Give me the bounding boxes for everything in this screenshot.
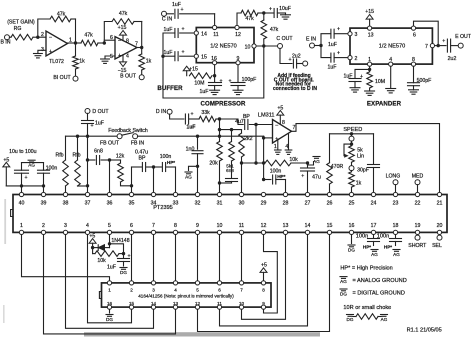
pin 9: [236, 56, 240, 65]
svg-text:4: 4: [86, 223, 89, 229]
svg-text:+: +: [442, 39, 445, 45]
junction pin39 rail: [42, 184, 45, 192]
capacitor 1n0: [186, 135, 203, 193]
pin 16: [211, 56, 217, 65]
terminal after 2u2: [303, 61, 308, 66]
svg-text:30pF: 30pF: [357, 168, 369, 174]
wires pins 6-11 to RAM 2-7: [132, 235, 242, 281]
pin 15: [194, 54, 207, 60]
capacitor 100n decoupling: [38, 163, 58, 186]
ground at 100pF: [233, 90, 243, 94]
svg-text:LONG: LONG: [386, 173, 401, 179]
svg-text:+: +: [49, 49, 52, 55]
svg-text:4: 4: [174, 288, 177, 293]
pin 11: [213, 25, 219, 38]
svg-text:11: 11: [213, 32, 218, 38]
junction pin40 rail: [20, 184, 23, 192]
terminal FB IN: [131, 134, 145, 147]
svg-text:9: 9: [262, 301, 265, 306]
resistor 470R: [327, 134, 344, 192]
svg-text:AG: AG: [28, 163, 35, 168]
svg-text:1uF: 1uF: [164, 50, 173, 56]
terminal SHORT: [408, 235, 427, 249]
capacitor 2u2 C OUT: [288, 54, 302, 69]
svg-text:20: 20: [437, 223, 443, 229]
wire U1B pin6: [104, 39, 115, 41]
capacitor 4u7 BP: [235, 114, 272, 130]
svg-text:LM311: LM311: [258, 112, 275, 118]
supply +5 LM311: [277, 106, 284, 125]
svg-text:Rfb: Rfb: [72, 153, 80, 159]
svg-text:12k: 12k: [116, 154, 125, 160]
capacitor 100n HP pin28: [262, 169, 286, 193]
svg-text:+15: +15: [189, 67, 198, 73]
svg-text:8: 8: [282, 120, 285, 126]
resistor Rfb1: [55, 136, 68, 192]
IC NE570 expander box: [350, 28, 432, 64]
junction D OUT / 6n8 row: [86, 158, 89, 161]
legend AG text: [353, 278, 407, 284]
svg-text:10u to 100u: 10u to 100u: [9, 149, 37, 155]
svg-text:47k: 47k: [245, 16, 254, 22]
terminal BI OUT: [53, 75, 78, 81]
svg-text:500pF: 500pF: [417, 78, 432, 84]
junction pin36 top: [108, 158, 111, 192]
svg-text:SEL: SEL: [432, 243, 442, 249]
wire pin9 column: [237, 65, 239, 83]
svg-text:+: +: [288, 57, 291, 63]
label Feedback Switch: [108, 128, 148, 134]
junction D OUT / FB row: [86, 135, 89, 138]
capacitor 1uF to pin3: [321, 27, 348, 49]
svg-text:AG: AG: [381, 317, 388, 322]
wire pin15 to RAM12: [198, 235, 330, 332]
svg-text:25: 25: [349, 200, 355, 206]
svg-text:1k: 1k: [356, 181, 362, 187]
svg-text:23: 23: [393, 200, 399, 206]
label SPEED: [343, 127, 362, 133]
wire pin12 to RAM9: [264, 235, 278, 313]
legend DG symbol: [340, 289, 347, 296]
junction Rfb2 top: [76, 135, 79, 138]
svg-text:100n: 100n: [356, 234, 368, 240]
pin 3: [348, 32, 358, 39]
terminal E IN: [306, 36, 316, 48]
resistor 10M compressor: [190, 73, 213, 87]
capacitor 100n pin17: [356, 234, 380, 250]
svg-text:−: −: [118, 39, 121, 45]
svg-text:4: 4: [126, 54, 129, 60]
wire pin12 to 47k: [237, 13, 241, 25]
node expander output: [437, 44, 440, 47]
svg-text:1/2 NE570: 1/2 NE570: [379, 44, 405, 50]
svg-text:100n: 100n: [377, 234, 389, 240]
capacitor 1uF pin16: [200, 79, 223, 96]
svg-text:47u: 47u: [312, 175, 321, 181]
svg-text:14: 14: [151, 301, 157, 306]
svg-text:1uF: 1uF: [107, 265, 116, 271]
switch lever feedback: [122, 133, 133, 136]
svg-text:15: 15: [129, 301, 135, 306]
svg-text:BI OUT: BI OUT: [53, 75, 71, 81]
svg-text:7: 7: [425, 44, 428, 50]
resistor 12k: [110, 154, 132, 186]
svg-text:14: 14: [305, 223, 311, 229]
pin 12: [235, 25, 241, 38]
op-amp U1B TL072: [110, 35, 138, 60]
resistor 1k to BI OUT: [73, 43, 85, 76]
resistor 10k: [265, 157, 308, 166]
svg-text:39: 39: [41, 200, 47, 206]
ground at 10M: [365, 91, 375, 95]
choke resistor 10R: [353, 314, 381, 320]
comparator LM311: [258, 112, 296, 150]
digital ground DG choke: [347, 315, 354, 322]
scan artifact bottom band: [84, 332, 320, 336]
input terminal B IN: [0, 35, 10, 46]
ground at 500pF: [409, 90, 419, 94]
svg-text:30: 30: [239, 200, 245, 206]
node at op-amp U1A inverting input: [36, 36, 39, 39]
capacitor 1uF D OUT: [82, 113, 104, 192]
junction 10k/256: [254, 161, 257, 164]
svg-text:40: 40: [19, 200, 25, 206]
analog ground AG at 1n0: [185, 172, 192, 179]
svg-text:1n0: 1n0: [186, 147, 195, 153]
svg-text:7: 7: [152, 223, 155, 229]
terminal D IN: [156, 109, 172, 115]
analog ground AG symbol: [28, 160, 35, 167]
svg-text:Feedback Switch: Feedback Switch: [108, 128, 148, 134]
digital ground DG RAM: [106, 315, 113, 322]
supply +15 at U1B pin8: [118, 25, 127, 41]
wire LM311 output to pin21: [292, 124, 440, 193]
resistor 10k pulldown: [93, 248, 124, 264]
svg-text:34: 34: [151, 200, 157, 206]
wire U1A output: [68, 42, 105, 44]
svg-text:+15: +15: [118, 25, 127, 31]
svg-text:FB IN: FB IN: [131, 140, 145, 146]
svg-text:+: +: [228, 79, 231, 85]
svg-text:35: 35: [129, 200, 135, 206]
pin 2: [348, 56, 358, 63]
label BUFFER: [157, 85, 183, 92]
resistor 47k feedback U1A: [50, 12, 71, 22]
svg-text:AG: AG: [185, 174, 192, 179]
node pin16 column: [213, 65, 216, 83]
svg-text:+: +: [337, 27, 340, 33]
svg-text:10: 10: [217, 223, 223, 229]
svg-text:RG: RG: [14, 26, 22, 32]
scan artifact left 2: [3, 305, 5, 323]
svg-text:20k: 20k: [209, 161, 218, 167]
wire U1A pin3 to ground: [38, 50, 46, 53]
svg-text:5: 5: [108, 223, 111, 229]
terminal C IN: [162, 11, 173, 22]
resistor 20k: [209, 142, 222, 193]
svg-text:HP*: HP*: [277, 174, 285, 179]
svg-text:24: 24: [371, 200, 377, 206]
svg-text:+: +: [301, 174, 304, 180]
capacitor 1uF to pin14: [164, 27, 195, 38]
svg-text:13: 13: [283, 223, 289, 229]
svg-text:(SET GAIN): (SET GAIN): [7, 20, 35, 26]
label EXPANDER: [367, 101, 402, 108]
svg-text:5: 5: [196, 288, 199, 293]
svg-text:26: 26: [327, 200, 333, 206]
svg-text:+: +: [337, 51, 340, 57]
svg-text:HP*: HP*: [167, 160, 175, 165]
svg-text:B IN: B IN: [0, 40, 10, 46]
svg-text:4164/41256 (Note: pinout is mi: 4164/41256 (Note: pinout is mirrored ver…: [138, 294, 234, 299]
node loop pin15 tap: [161, 55, 175, 58]
svg-text:MED: MED: [412, 173, 424, 179]
resistor 33k: [199, 110, 220, 122]
RAM bottom pins 16-9: [107, 301, 266, 309]
IC RAM 4164/41256: [99, 283, 271, 307]
svg-text:100pF: 100pF: [242, 77, 257, 83]
resistor 1k speed: [349, 171, 362, 193]
svg-text:3: 3: [152, 288, 155, 293]
capacitor 0.47u BP: [132, 150, 162, 186]
svg-text:7: 7: [240, 288, 243, 293]
ground at 10uF: [281, 15, 291, 19]
junction A FB row: [218, 135, 221, 138]
svg-text:C OUT: C OUT: [276, 36, 293, 42]
svg-text:17: 17: [371, 223, 377, 229]
svg-text:DG: DG: [106, 317, 113, 322]
svg-text:E OUT: E OUT: [455, 34, 472, 40]
label revision R1.1: [407, 328, 442, 334]
svg-text:6n8: 6n8: [94, 149, 103, 155]
wire LM311 pin1 gnd: [277, 140, 279, 150]
svg-text:12: 12: [235, 32, 241, 38]
capacitor 2u2 E OUT: [435, 39, 459, 63]
svg-text:BP: BP: [139, 156, 146, 162]
svg-text:+: +: [219, 79, 222, 85]
capacitor 500pF: [408, 78, 432, 90]
svg-text:DG: DG: [347, 317, 354, 322]
digital ground DG at 1uF: [120, 268, 127, 275]
scan artifact left 1: [4, 199, 6, 244]
capacitor electrolytic 10u-100u: [15, 163, 29, 186]
capacitor 100pF: [228, 77, 256, 90]
svg-text:+: +: [127, 254, 130, 260]
capacitor 6n8: [88, 149, 110, 165]
wire feedback U1A: [38, 19, 76, 43]
terminal speed bottom: [349, 166, 354, 171]
svg-text:32: 32: [195, 200, 201, 206]
svg-text:+: +: [190, 112, 193, 118]
svg-text:+: +: [118, 53, 121, 59]
op-amp U1A TL072: [41, 31, 72, 65]
wire feedback U1B: [104, 22, 141, 48]
svg-text:+: +: [181, 50, 184, 56]
svg-text:1uF: 1uF: [95, 121, 104, 127]
wire pin3 to RAM14: [66, 235, 154, 328]
svg-text:12: 12: [261, 223, 267, 229]
label 10u to 100u: [9, 149, 37, 155]
svg-text:E IN: E IN: [306, 36, 316, 42]
junction pin34 top: [152, 165, 155, 192]
potentiometer 5k Lin: [344, 141, 364, 166]
svg-text:D OUT: D OUT: [92, 109, 109, 115]
svg-text:10R or small choke: 10R or small choke: [343, 305, 391, 311]
svg-text:6: 6: [110, 35, 113, 41]
junction A row2: [218, 128, 242, 131]
wire to 2u2: [280, 48, 292, 63]
IC NE570 compressor box: [196, 28, 254, 63]
svg-text:31: 31: [217, 200, 223, 206]
capacitor 1uF at C IN: [166, 2, 214, 25]
junction 2k2 bottom: [240, 161, 243, 164]
PT2395 top pins 40-21: [19, 192, 443, 206]
svg-text:AG: AG: [371, 252, 378, 257]
svg-text:470R: 470R: [331, 164, 344, 170]
svg-text:21: 21: [437, 200, 443, 206]
terminal MED: [412, 173, 424, 192]
node 1uF ram: [122, 252, 125, 255]
svg-text:1uF: 1uF: [328, 65, 337, 71]
pin 6: [411, 26, 416, 39]
terminal LONG: [386, 173, 401, 192]
terminal FB OUT: [100, 134, 122, 147]
svg-text:47k: 47k: [84, 33, 93, 39]
svg-text:10k: 10k: [97, 258, 106, 264]
svg-text:10uF: 10uF: [279, 6, 291, 12]
svg-text:DG: DG: [348, 247, 355, 252]
wire pin5 down: [108, 235, 124, 254]
legend HP*: [340, 265, 392, 271]
svg-text:Lin: Lin: [357, 153, 364, 159]
svg-text:1uF: 1uF: [164, 27, 173, 33]
svg-text:13: 13: [173, 301, 179, 306]
svg-text:33k: 33k: [201, 110, 210, 116]
svg-text:13: 13: [368, 33, 374, 39]
junction 10k/263: [262, 161, 265, 164]
label (SET GAIN): [7, 20, 35, 26]
junction pin35: [130, 184, 133, 192]
svg-text:10: 10: [239, 301, 245, 306]
svg-text:1k: 1k: [146, 59, 152, 65]
svg-text:= DIGITAL GROUND: = DIGITAL GROUND: [353, 290, 405, 296]
svg-text:7: 7: [135, 42, 138, 48]
svg-text:7: 7: [293, 125, 296, 131]
wire node A down: [219, 119, 221, 142]
capacitor 1uF expander: [344, 69, 370, 87]
analog ground AG pin17: [371, 250, 378, 257]
legend choke text: [343, 305, 391, 311]
svg-text:+: +: [181, 27, 184, 33]
svg-text:6n8: 6n8: [226, 168, 234, 173]
svg-text:33: 33: [173, 200, 179, 206]
svg-text:HP* = High Precision: HP* = High Precision: [340, 265, 392, 271]
supply +15 expander: [365, 9, 374, 26]
ground at U1A pin3: [34, 54, 43, 58]
RAM top pins 1-8: [107, 281, 265, 293]
diode 1N4148: [93, 238, 130, 251]
svg-text:28: 28: [283, 200, 289, 206]
svg-text:16: 16: [211, 56, 217, 62]
wire pin2 to RAM13: [44, 235, 176, 334]
svg-text:+: +: [269, 7, 272, 13]
svg-text:FB OUT: FB OUT: [100, 140, 120, 146]
svg-text:−: −: [49, 35, 52, 41]
terminal B OUT: [120, 74, 144, 80]
svg-text:2: 2: [41, 32, 44, 38]
svg-text:R1.1 21/05/05: R1.1 21/05/05: [407, 328, 442, 334]
resistor 2k2: [239, 130, 253, 193]
wire C OUT row: [256, 45, 277, 47]
node BI OUT: [74, 41, 77, 44]
svg-text:C IN: C IN: [162, 17, 173, 23]
node 10uF: [262, 11, 265, 14]
resistor RG: [9, 26, 46, 40]
ground at pin4: [386, 89, 396, 93]
wire minus input LM311: [220, 119, 244, 125]
svg-text:1uF: 1uF: [200, 89, 209, 95]
resistor 47k compressor: [241, 10, 264, 22]
svg-text:10M: 10M: [194, 81, 204, 87]
wire FB row right: [138, 135, 264, 137]
node E IN split: [314, 44, 322, 47]
ground LM311 pin4: [285, 150, 292, 154]
svg-text:2: 2: [355, 56, 358, 62]
svg-text:SPEED: SPEED: [343, 127, 362, 133]
ground LM311 pin1: [275, 150, 282, 154]
junction 4u7 out: [254, 123, 257, 163]
svg-text:47k: 47k: [270, 27, 279, 33]
wire pin14 to RAM11: [220, 235, 308, 326]
pin 1: [368, 57, 372, 66]
wire pin16 to DG: [351, 235, 353, 244]
resistor 1k to B OUT: [137, 48, 152, 75]
capacitor 30pF: [357, 134, 379, 192]
svg-text:BUFFER: BUFFER: [157, 85, 183, 92]
svg-text:12: 12: [195, 301, 201, 306]
node A after 33k: [218, 117, 221, 120]
wire compressor feedback loop: [163, 33, 264, 98]
svg-text:8: 8: [412, 57, 415, 63]
svg-text:4: 4: [389, 57, 392, 63]
svg-text:EXPANDER: EXPANDER: [367, 101, 402, 108]
supply +5 diode circuit: [89, 234, 96, 250]
wire speed rail: [330, 133, 374, 135]
pin 13: [368, 26, 374, 39]
svg-text:BP: BP: [243, 114, 250, 120]
pin 7: [425, 44, 434, 51]
pin 4: [389, 57, 393, 66]
svg-text:−: −: [275, 123, 278, 129]
IC PT2395 body: [11, 195, 447, 233]
svg-text:= ANALOG GROUND: = ANALOG GROUND: [353, 278, 407, 284]
svg-text:1: 1: [20, 223, 23, 229]
terminal speed top: [349, 136, 354, 141]
wire LM311 pin4 gnd: [288, 134, 290, 151]
svg-text:16: 16: [349, 223, 355, 229]
capacitor 1uF ram: [107, 254, 130, 271]
svg-text:38: 38: [63, 200, 69, 206]
svg-text:37: 37: [85, 200, 91, 206]
capacitor 6n8 series: [226, 161, 238, 183]
svg-text:+: +: [180, 7, 183, 13]
terminal C OUT: [276, 36, 293, 49]
junction D OUT / Rfb2: [86, 184, 89, 187]
wire RAM16 to DG: [109, 310, 111, 313]
analog ground AG choke: [381, 315, 388, 322]
svg-text:+: +: [90, 123, 93, 129]
capacitor 10uF: [264, 6, 291, 18]
